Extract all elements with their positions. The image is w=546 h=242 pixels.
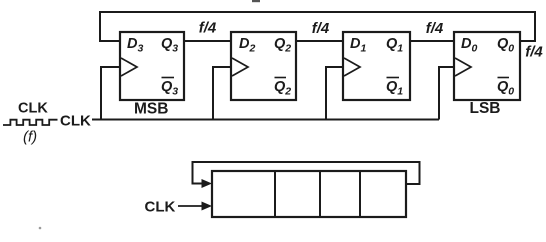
- clock input triangle of FF2: [232, 58, 248, 76]
- label Q0-bar (pin Q-bar of FF0): [497, 78, 514, 98]
- scan artifact top smudge: [252, 0, 260, 2]
- scan artifact dot: [39, 227, 42, 230]
- clock input triangle of FF1: [344, 58, 360, 76]
- flip-flop FF3 (D3, MSB) box: [120, 32, 184, 100]
- svg-text:(f): (f): [23, 129, 37, 146]
- register cell divider 2: [319, 171, 321, 217]
- label Q1-bar (pin Q-bar of FF1): [386, 78, 403, 98]
- wire: clock branch to FF1: [326, 67, 343, 120]
- wire: top feedback rail from Q0 back to D3: [100, 12, 535, 41]
- svg-text:LSB: LSB: [470, 100, 501, 117]
- svg-text:CLK: CLK: [18, 101, 48, 117]
- wire: clock branch to FF0: [439, 67, 454, 120]
- wire: Q2 to D1: [296, 40, 343, 42]
- svg-text:f/4: f/4: [199, 20, 217, 37]
- wire: clock bus: [92, 119, 439, 121]
- clock input triangle of FF3: [121, 58, 137, 76]
- flip-flop FF1 (D1) box: [343, 32, 410, 100]
- register cell divider 3: [359, 171, 361, 217]
- wire: register feedback loop with arrowhead: [193, 162, 420, 188]
- wire: D3 input stub: [99, 40, 120, 42]
- clock input triangle of FF0: [455, 58, 471, 76]
- label Q3-bar (pin Q-bar of FF3): [161, 78, 178, 98]
- flip-flop FF0 (D0, LSB) box: [454, 32, 520, 100]
- wire: Q3 to D2: [184, 40, 231, 42]
- register cell divider 1: [274, 171, 276, 217]
- wire: clock branch to FF3: [101, 67, 120, 120]
- svg-text:MSB: MSB: [134, 101, 168, 118]
- svg-text:CLK: CLK: [145, 199, 176, 216]
- svg-text:f/4: f/4: [525, 44, 543, 61]
- svg-text:f/4: f/4: [312, 20, 330, 37]
- label Q2-bar (pin Q-bar of FF2): [274, 78, 291, 98]
- shift register box (4 cells): [212, 171, 406, 217]
- wire: clock branch to FF2: [213, 67, 231, 120]
- wire: Q0 output stub: [520, 40, 536, 42]
- wire: register clock arrow: [178, 202, 212, 211]
- flip-flop FF2 (D2) box: [231, 32, 296, 100]
- wire: Q1 to D0: [410, 40, 454, 42]
- svg-text:CLK: CLK: [60, 113, 91, 130]
- clock waveform: [3, 120, 58, 125]
- svg-text:f/4: f/4: [426, 20, 444, 37]
